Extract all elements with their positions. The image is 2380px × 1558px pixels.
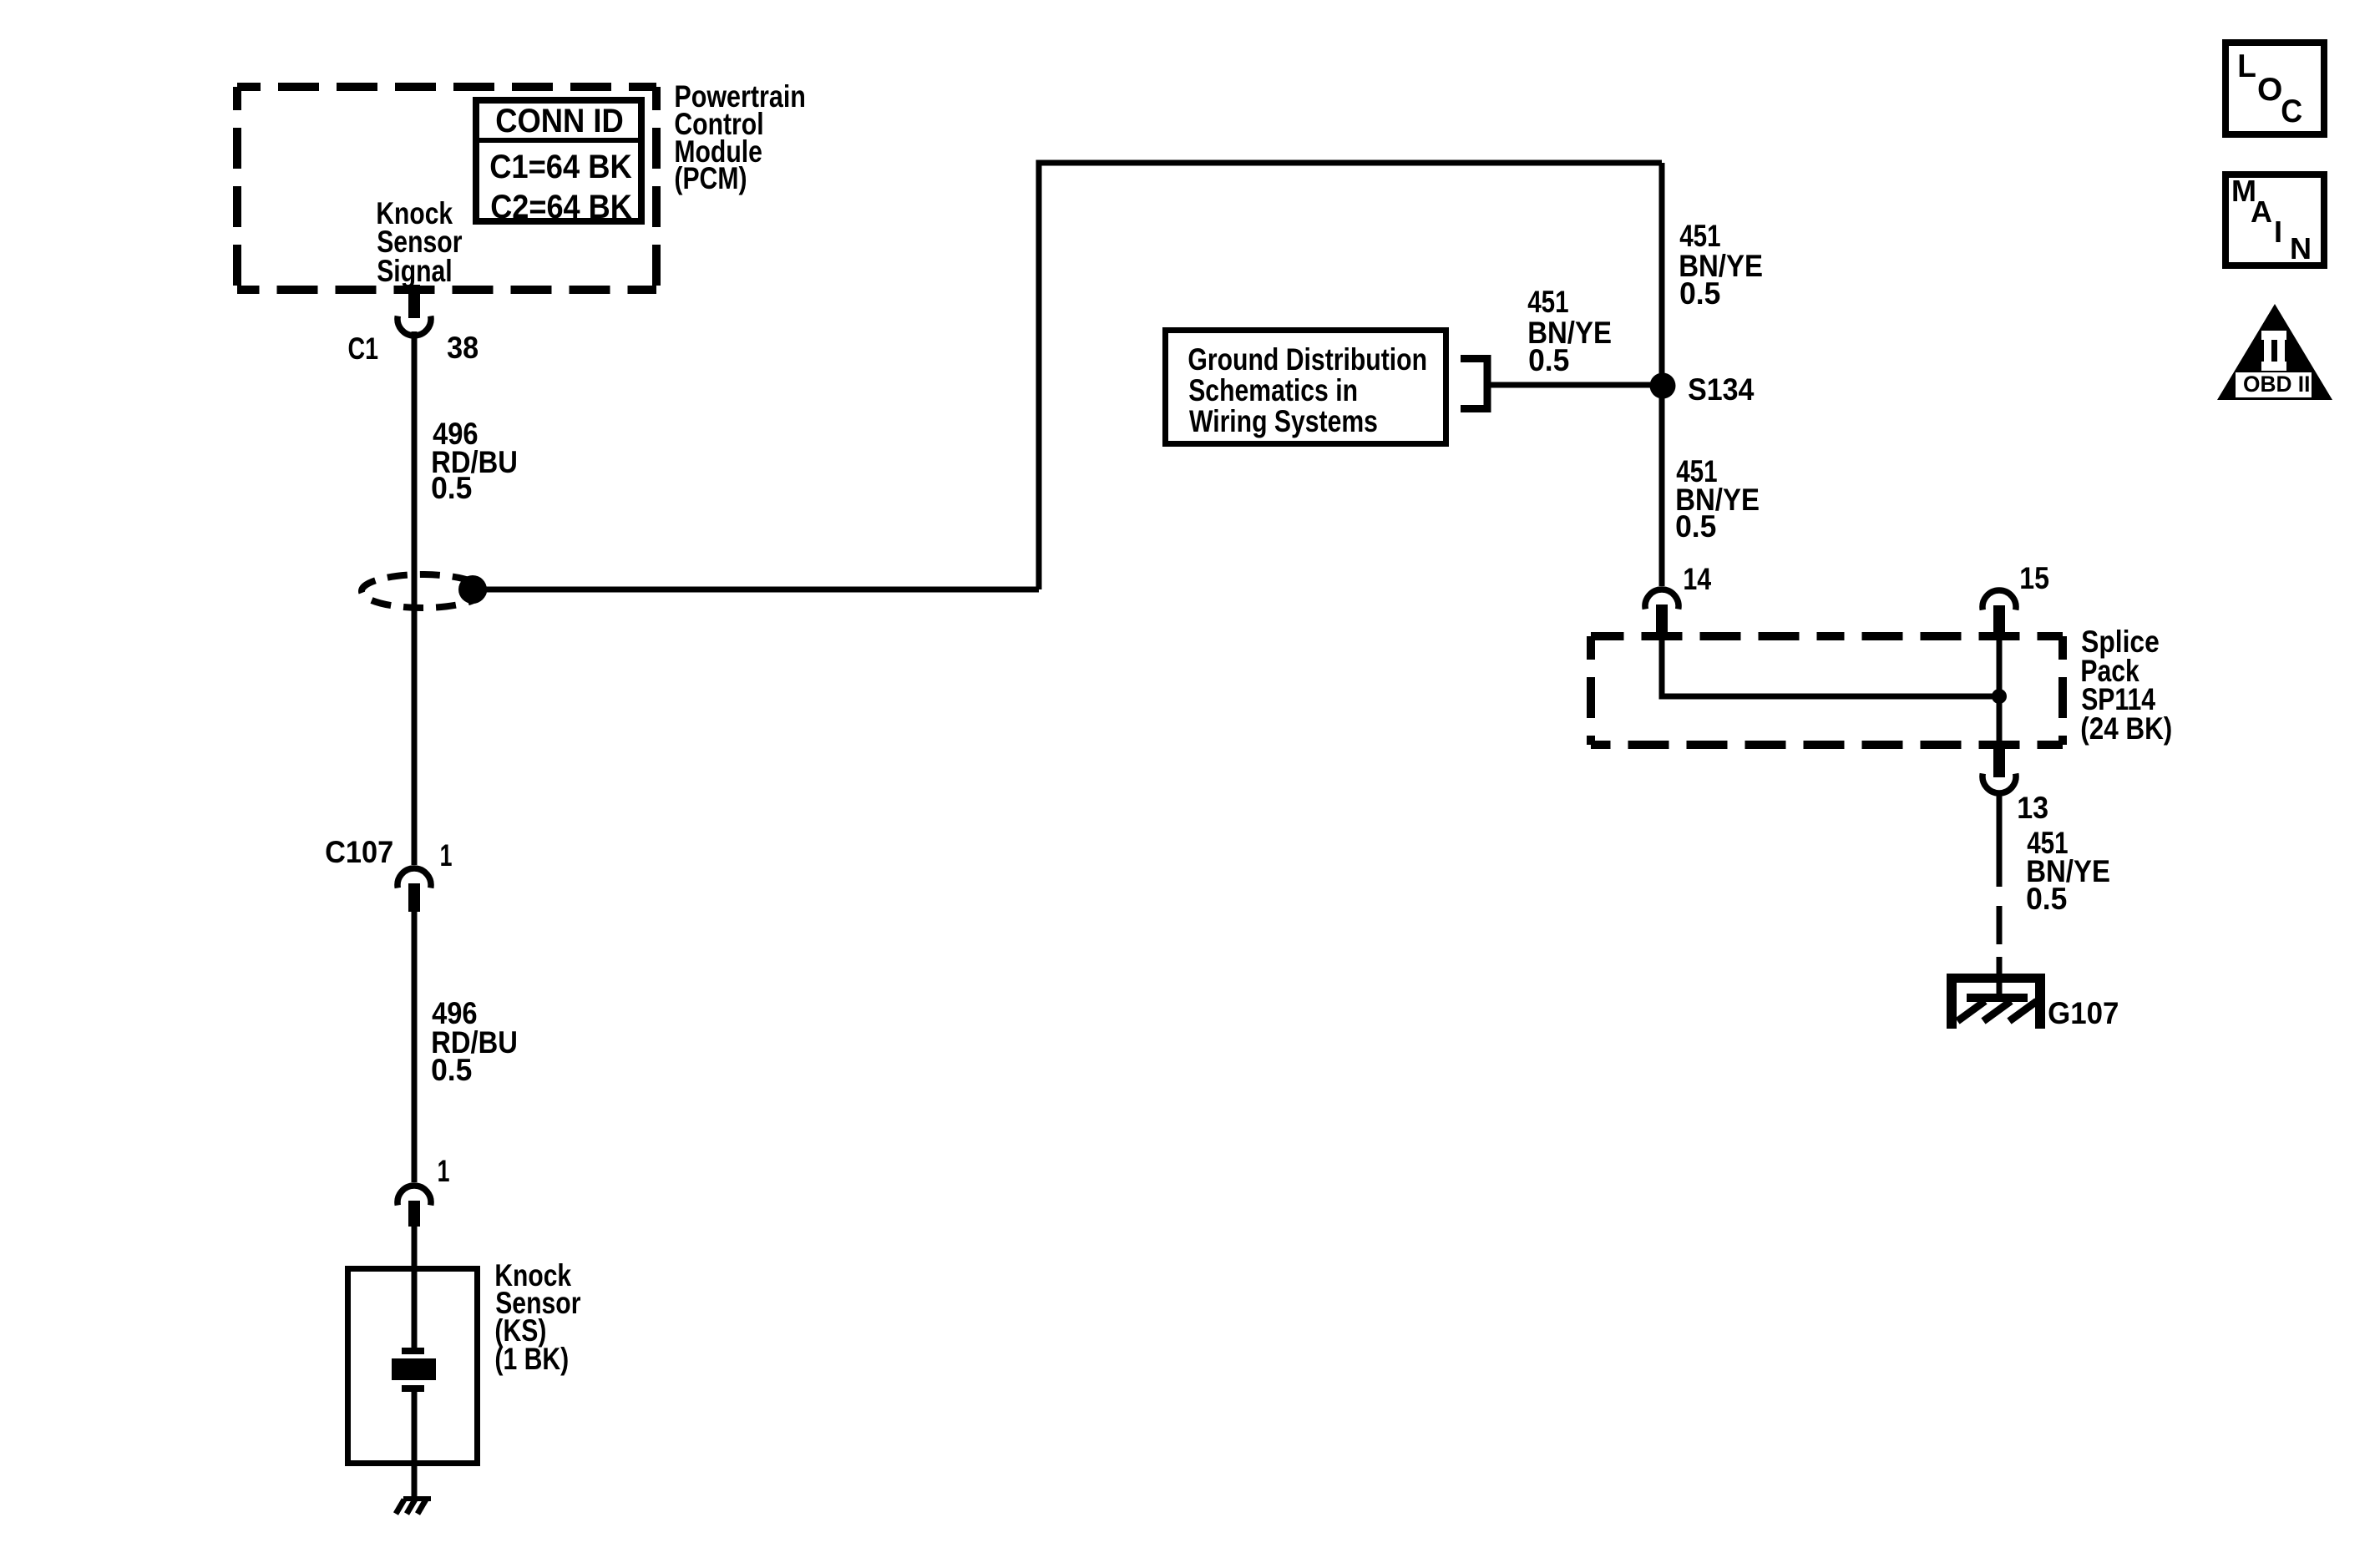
svg-text:Signal: Signal	[377, 254, 452, 289]
svg-text:O: O	[2257, 72, 2282, 108]
svg-text:0.5: 0.5	[2026, 881, 2067, 916]
svg-text:L: L	[2237, 48, 2256, 84]
svg-text:C1: C1	[348, 332, 379, 367]
svg-text:0.5: 0.5	[1675, 508, 1716, 544]
svg-text:G107: G107	[2048, 995, 2119, 1030]
svg-text:C2=64 BK: C2=64 BK	[490, 189, 632, 225]
svg-text:451: 451	[1527, 286, 1568, 320]
svg-text:0.5: 0.5	[431, 470, 472, 505]
svg-text:13: 13	[2017, 791, 2048, 826]
svg-text:N: N	[2290, 231, 2312, 266]
svg-text:(1 BK): (1 BK)	[494, 1342, 569, 1377]
svg-text:38: 38	[447, 331, 479, 366]
svg-text:A: A	[2251, 195, 2272, 229]
svg-text:(PCM): (PCM)	[674, 161, 747, 196]
svg-text:C1=64 BK: C1=64 BK	[489, 148, 632, 185]
svg-text:I: I	[2274, 215, 2282, 249]
svg-text:C: C	[2281, 93, 2302, 129]
svg-text:(24 BK): (24 BK)	[2080, 712, 2172, 746]
svg-text:S134: S134	[1688, 372, 1755, 407]
svg-text:15: 15	[2019, 562, 2049, 596]
svg-text:0.5: 0.5	[431, 1052, 472, 1087]
svg-text:1: 1	[438, 1154, 450, 1188]
svg-text:CONN ID: CONN ID	[495, 102, 624, 139]
svg-text:OBD II: OBD II	[2243, 372, 2310, 397]
svg-text:Ground Distribution: Ground Distribution	[1187, 342, 1427, 377]
svg-text:Wiring Systems: Wiring Systems	[1189, 404, 1378, 439]
svg-text:14: 14	[1683, 562, 1711, 597]
svg-text:Schematics in: Schematics in	[1188, 373, 1358, 408]
svg-text:0.5: 0.5	[1679, 276, 1720, 311]
svg-text:C107: C107	[325, 835, 393, 869]
svg-text:0.5: 0.5	[1528, 342, 1569, 377]
svg-text:1: 1	[440, 838, 453, 873]
